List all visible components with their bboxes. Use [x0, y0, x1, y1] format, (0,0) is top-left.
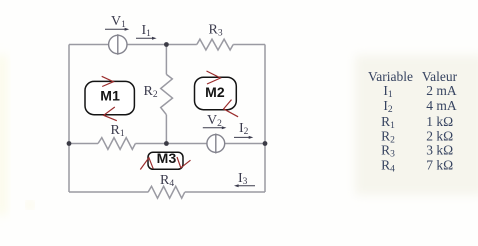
- wire middle vertical lower: [165, 115, 167, 144]
- resistor R3: [197, 39, 233, 50]
- wire left vertical: [68, 45, 70, 193]
- svg-text:7 kΩ: 7 kΩ: [426, 157, 453, 172]
- wire top segment right: [233, 44, 265, 46]
- mesh arrow M3 right: [177, 157, 191, 168]
- mesh arrow M3 left: [140, 158, 153, 170]
- svg-text:V2: V2: [207, 113, 222, 129]
- svg-text:R1: R1: [111, 123, 125, 139]
- svg-text:I2: I2: [239, 121, 249, 137]
- svg-text:I3: I3: [238, 171, 248, 187]
- svg-text:2 mA: 2 mA: [426, 83, 457, 98]
- svg-text:R2: R2: [144, 84, 158, 100]
- junction node top center: [164, 42, 169, 47]
- table row R3 = 3 kOhm: [381, 143, 453, 160]
- mesh M1 box: [85, 81, 134, 114]
- table row I2 = 4 mA: [383, 98, 457, 115]
- wire top segment middle: [127, 44, 197, 46]
- mesh arrow M1 bottom: [104, 107, 117, 121]
- resistor R2: [161, 74, 173, 114]
- arrow I2: [234, 136, 253, 139]
- table row I1 = 2 mA: [383, 83, 457, 100]
- resistor R1: [98, 138, 135, 150]
- mesh arrow M2 top: [207, 71, 221, 84]
- svg-text:M2: M2: [205, 84, 225, 100]
- table header: [368, 69, 458, 84]
- junction node middle center: [164, 141, 169, 146]
- mesh arrow M2 bottom: [224, 100, 239, 117]
- svg-text:V1: V1: [111, 14, 126, 30]
- wire middle horizontal left: [69, 143, 98, 145]
- svg-text:Variable: Variable: [368, 69, 413, 84]
- wire bottom segment left: [69, 191, 148, 193]
- scan tint left edge: [0, 55, 7, 215]
- resistor R4: [148, 186, 185, 198]
- wire middle vertical upper: [165, 45, 167, 75]
- voltage source V2: [207, 134, 225, 154]
- svg-text:M3: M3: [157, 150, 177, 166]
- wire right vertical: [264, 45, 266, 193]
- table row R1 = 1 kOhm: [381, 114, 453, 131]
- svg-text:2 kΩ: 2 kΩ: [426, 128, 453, 143]
- svg-text:Valeur: Valeur: [422, 69, 458, 84]
- mesh M3 box: [148, 150, 183, 169]
- wire bottom segment right: [185, 191, 265, 193]
- voltage source V1: [109, 34, 127, 55]
- wire top segment left: [69, 44, 109, 46]
- mesh M2 box: [195, 77, 237, 110]
- svg-text:I1: I1: [142, 23, 152, 39]
- svg-text:M1: M1: [100, 88, 120, 104]
- scan tint table background: [355, 55, 478, 195]
- arrow I3: [234, 184, 255, 187]
- svg-text:1 kΩ: 1 kΩ: [426, 114, 453, 129]
- table row R4 = 7 kOhm: [381, 157, 453, 174]
- arrow V2: [203, 126, 227, 129]
- wire middle horizontal center: [135, 143, 207, 145]
- wire middle horizontal right: [225, 143, 265, 145]
- arrow V1: [105, 28, 129, 31]
- mesh arrow M1 top: [102, 76, 114, 86]
- arrow I1: [136, 37, 157, 40]
- table row R2 = 2 kOhm: [381, 128, 453, 145]
- svg-text:3 kΩ: 3 kΩ: [426, 143, 453, 158]
- junction node middle right: [263, 141, 268, 146]
- svg-text:R4: R4: [160, 173, 174, 189]
- svg-text:R3: R3: [209, 23, 223, 39]
- svg-text:4 mA: 4 mA: [426, 98, 457, 113]
- junction node middle left: [67, 141, 72, 146]
- scan speck: [27, 202, 33, 208]
